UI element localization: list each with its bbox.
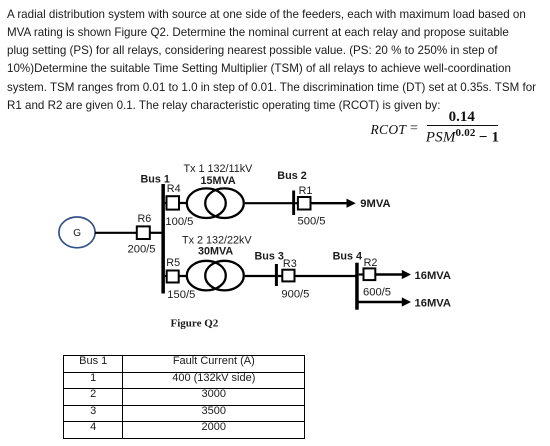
wire Bus 4 to R2 [359,273,364,275]
svg-text:Figure Q2: Figure Q2 [171,318,219,330]
feeder arrow to first 16MVA load [375,273,403,275]
wire Bus 2 to R1 [295,202,299,204]
relay R2 [364,268,376,280]
relay R3 [282,270,294,282]
svg-text:Bus 1: Bus 1 [141,174,170,186]
relay R6 [137,226,150,239]
svg-text:500/5: 500/5 [298,215,326,227]
svg-text:900/5: 900/5 [281,289,309,301]
transformer Tx2 winding 2 [205,261,244,291]
relay R5 [167,271,179,283]
svg-text:Bus 4: Bus 4 [333,250,362,262]
relay R1 [298,197,311,210]
svg-text:Bus 2: Bus 2 [277,170,306,182]
arrowhead 9MVA [347,199,356,208]
svg-text:600/5: 600/5 [363,286,391,298]
bus 3 bar [275,264,278,286]
fault current table [63,355,305,439]
transformer Tx2 winding 1 [187,261,226,291]
wire Tx 1 to Bus 2 [245,202,293,204]
svg-text:R6: R6 [138,213,152,225]
transformer Tx1 winding 1 [187,188,226,218]
svg-text:30MVA: 30MVA [198,246,233,258]
wire Tx 2 to Bus 3 [245,275,276,277]
wire Bus 3 to R3 [278,275,283,277]
generator G [59,217,95,248]
svg-text:R2: R2 [364,257,378,269]
wire Bus 1 to Tx 2 [165,275,187,277]
arrowhead second 16MVA [402,297,411,306]
wire R6 to Bus 1 [150,232,164,234]
svg-text:R1: R1 [299,185,313,197]
svg-text:16MVA: 16MVA [415,297,451,309]
svg-text:Tx 1 132/11kV: Tx 1 132/11kV [184,163,254,175]
svg-text:200/5: 200/5 [128,244,156,256]
svg-text:9MVA: 9MVA [360,198,390,210]
transformer Tx1 winding 2 [205,188,244,218]
paragraph text [7,6,536,116]
wire G to R6 [95,232,137,234]
svg-text:R3: R3 [283,258,297,270]
bus 4 bar [355,263,359,310]
svg-text:R5: R5 [166,257,180,269]
wire Bus 1 to Tx 1 [165,202,187,204]
bus 2 bar [292,191,295,216]
svg-text:R4: R4 [167,183,181,195]
feeder arrow to 9MVA load [311,202,349,204]
svg-text:15MVA: 15MVA [201,175,236,187]
arrowhead first 16MVA [402,270,411,279]
svg-text:16MVA: 16MVA [415,270,451,282]
svg-text:G: G [73,228,81,239]
bus 1 bar [161,184,165,294]
relay R4 [167,196,180,209]
svg-text:150/5: 150/5 [167,289,195,301]
wire R3 to Bus 4 [295,275,357,277]
feeder arrow to second 16MVA load [357,301,404,303]
svg-text:100/5: 100/5 [165,216,193,228]
svg-text:Bus 3: Bus 3 [255,250,284,262]
formula RCOT = 0.14 / (PSM^0.02 - 1) [371,123,407,137]
